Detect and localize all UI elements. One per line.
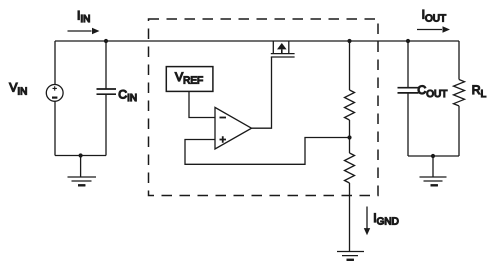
svg-text:COUT: COUT (417, 83, 447, 100)
node divider top (347, 39, 351, 43)
node COUT top (406, 39, 410, 43)
resistor RL load (454, 80, 465, 106)
current arrow IOUT (417, 26, 450, 33)
op-amp U1 error amplifier (215, 107, 252, 149)
label IIN (77, 8, 90, 25)
svg-text:IOUT: IOUT (422, 8, 447, 25)
wire bottom right rail (408, 155, 459, 157)
node feedback tap (347, 135, 351, 139)
wire top rail VIN to RL (55, 40, 459, 42)
svg-text:CIN: CIN (118, 87, 137, 104)
wire CIN branch upper (105, 41, 107, 89)
ground right (420, 156, 447, 185)
wire divider middle (349, 120, 351, 153)
current arrow IGND (364, 207, 370, 236)
label VIN (9, 81, 27, 98)
wire divider to ground (349, 183, 351, 252)
svg-text:RL: RL (472, 83, 487, 100)
wire divider upper entry (349, 41, 351, 90)
wire COUT branch upper (407, 41, 409, 88)
svg-text:IGND: IGND (373, 211, 399, 228)
ground center (337, 252, 364, 260)
label RL (472, 83, 487, 100)
capacitor CIN (97, 89, 117, 94)
wire RL branch upper (458, 41, 460, 80)
voltage reference VREF box (166, 67, 213, 92)
node CIN top (104, 39, 108, 43)
capacitor COUT (398, 88, 419, 93)
label IGND (373, 211, 399, 228)
current arrow IIN (68, 28, 100, 35)
label CIN (118, 87, 137, 104)
label IOUT (422, 8, 447, 25)
wire RL branch lower (458, 106, 460, 156)
svg-text:VREF: VREF (175, 70, 203, 87)
node left ground junction (79, 153, 83, 157)
svg-text:VIN: VIN (9, 81, 27, 98)
wire VREF to op-amp inverting input (189, 91, 215, 117)
ground left (68, 156, 97, 186)
resistor R1 upper divider (345, 90, 355, 120)
label VREF (175, 70, 203, 87)
wire VIN branch lower (54, 101, 56, 155)
wire VIN branch upper (54, 41, 56, 85)
dashed IC boundary box (149, 19, 379, 196)
svg-text:IIN: IIN (77, 8, 90, 25)
voltage source VIN (46, 85, 63, 102)
wire COUT branch lower (407, 93, 409, 156)
node right ground junction (431, 154, 435, 158)
label COUT (417, 83, 447, 100)
transistor Q1 pass PMOS (271, 41, 295, 57)
wire CIN branch lower (105, 94, 107, 155)
resistor R2 lower divider (345, 153, 355, 183)
wire op-amp output to gate (252, 57, 272, 128)
wire noninverting input feedback (185, 138, 350, 165)
wire bottom left rail (55, 155, 106, 157)
